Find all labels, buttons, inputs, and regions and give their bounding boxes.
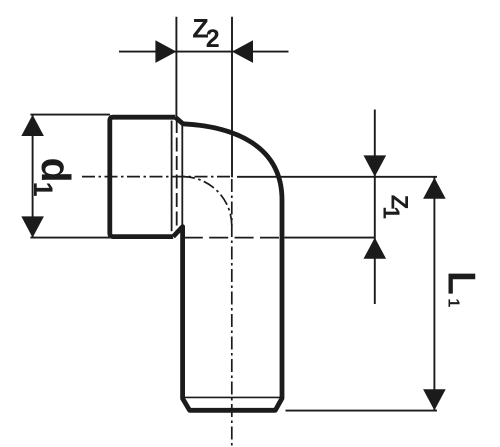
dimension Z2: left extension line (socket face): [175, 17, 177, 118]
dimension d1: upper arrowhead: [21, 115, 44, 136]
dimension d1: dimension line: [32, 115, 34, 238]
horizontal centerline (dash-dot): [82, 176, 233, 178]
dimension L1: dimension line: [433, 177, 435, 410]
dimension Z1: vertical line with outside arrows: [374, 110, 376, 305]
socket outline (left inlet of elbow): [110, 117, 175, 236]
elbow body: outer bend arc, pipe right edge, bottom spigot with chamfer, pipe left edge, inner shoulder: [173, 117, 282, 410]
dimension Z2: left arrowhead: [155, 40, 176, 63]
pipe surface edge line inside socket end: [181, 125, 183, 227]
dimension Z1: bottom extension line (solid part): [285, 237, 375, 239]
dimension Z1: lower arrowhead (points up): [364, 238, 387, 259]
dimension L1: lower arrowhead (points down): [423, 389, 446, 410]
socket depth hidden line (dashed): [176, 119, 178, 233]
dimension L1: upper arrowhead (points up): [423, 178, 446, 199]
dimension d1: bottom extension line: [30, 237, 110, 239]
dimension Z2: right extension line (pipe axis): [231, 17, 233, 178]
vertical centerline (dash-dot): [231, 179, 233, 446]
dimension d1: top extension line: [30, 114, 110, 116]
dimension d1: lower arrowhead: [21, 216, 44, 237]
dimension Z1/L1: top extension line at pipe axis level: [237, 176, 437, 178]
hidden line through pipe at socket bottom plane (dashed): [184, 237, 282, 239]
dimension Z1: upper arrowhead (points down): [364, 155, 387, 176]
dimension Z2: dimension line: [119, 51, 289, 53]
dimension L1: bottom extension line: [286, 410, 438, 412]
dimension Z2: right arrowhead: [232, 40, 253, 63]
bend centerline arc (dash-dot): [183, 177, 232, 226]
spigot chamfer edge line: [184, 396, 281, 398]
socket rim inner edge line: [171, 121, 173, 232]
